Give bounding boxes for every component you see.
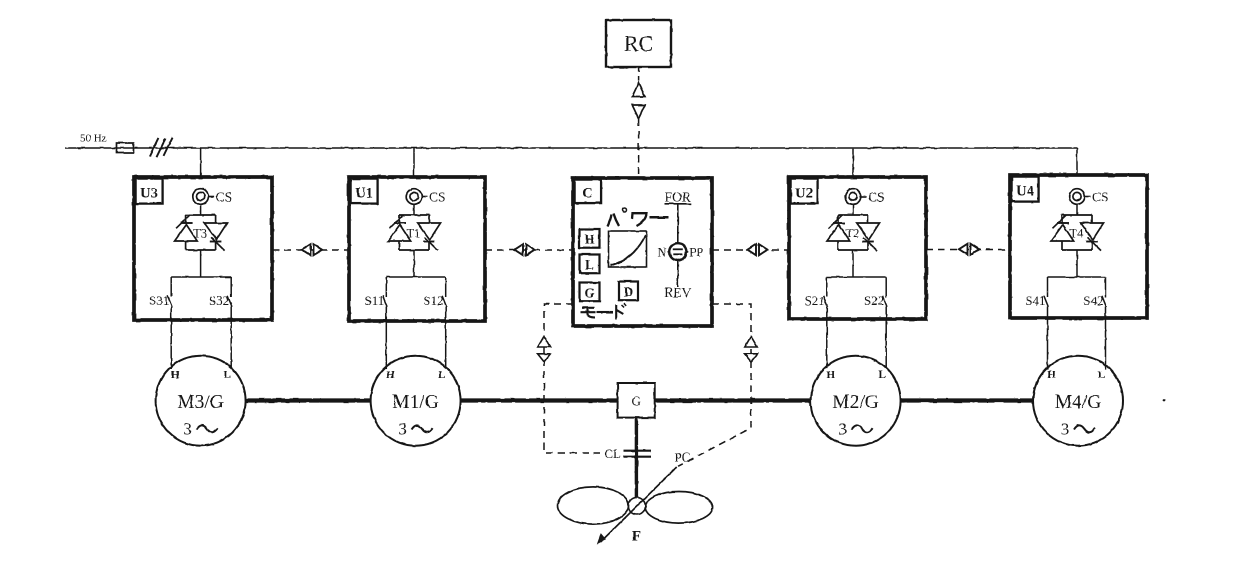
switch box top wire of U3: [171, 276, 231, 278]
label PP: [686, 245, 703, 259]
svg-text:S11: S11: [365, 293, 385, 308]
mode button D: [619, 282, 638, 301]
inverter unit U2 box: [789, 177, 926, 319]
svg-text:U3: U3: [140, 185, 158, 201]
thyristor pair T2: [827, 215, 880, 251]
svg-text:M3/G: M3/G: [177, 392, 224, 413]
label 3-phase of M1/G: [398, 420, 432, 439]
wire T3 to switch box: [200, 250, 202, 277]
svg-text:3: 3: [1061, 420, 1070, 439]
switch box top wire of U1: [386, 276, 445, 278]
current sensor CS of U1: [406, 189, 427, 205]
inverter unit U1 box: [349, 177, 485, 321]
label C: [575, 180, 602, 204]
svg-text:T4: T4: [1070, 227, 1085, 241]
svg-text:H: H: [386, 369, 395, 381]
three-phase slashes: [149, 137, 172, 157]
arrow down on clutch line: [538, 354, 551, 362]
wire power feed to U2: [852, 148, 854, 177]
label 3-phase of M2/G: [838, 420, 872, 439]
wire power feed to U1: [413, 148, 415, 177]
wire PP to REV: [677, 260, 679, 287]
pitch control rod PC: [598, 467, 677, 543]
switch S21: [823, 277, 827, 368]
svg-text:L: L: [438, 369, 445, 381]
double arrow on U2-U4: [959, 244, 979, 255]
wire CS to thyristor T1: [413, 204, 415, 216]
svg-text:T3: T3: [193, 227, 207, 241]
svg-text:S32: S32: [209, 293, 229, 308]
propeller blade right: [645, 492, 712, 524]
propeller blade left: [558, 487, 629, 524]
motor generator M4/G: [1033, 356, 1123, 446]
label 3-phase of M3/G: [183, 420, 217, 439]
wire CS to thyristor T3: [200, 204, 202, 216]
wire FOR to PP: [677, 204, 679, 244]
switch S32: [228, 277, 232, 369]
label katakana mode (モード): [581, 304, 627, 320]
svg-text:3: 3: [183, 420, 192, 439]
wire CS to thyristor T2: [852, 204, 854, 216]
label U3: [136, 179, 163, 204]
inverter unit U3 box: [134, 177, 272, 320]
switch S11: [383, 277, 387, 369]
svg-text:H: H: [171, 369, 180, 381]
control line C to clutch: [544, 304, 600, 453]
arrow down on RC link: [632, 105, 645, 119]
svg-text:3: 3: [398, 420, 407, 439]
svg-text:U1: U1: [355, 185, 373, 201]
thyristor pair T3: [175, 215, 228, 251]
motor generator M2/G: [811, 356, 901, 446]
svg-text:L: L: [585, 257, 594, 272]
power curve graph: [609, 231, 647, 267]
wire RC to C dashed link: [638, 67, 640, 178]
fuse on power bus: [117, 143, 134, 153]
shaft gearbox to M2: [655, 398, 811, 402]
svg-text:PC: PC: [675, 450, 691, 465]
svg-text:L: L: [879, 369, 886, 381]
motor generator M1/G: [371, 356, 461, 446]
arrow up on clutch line: [538, 336, 550, 347]
svg-text:CL: CL: [604, 446, 621, 461]
svg-text:S41: S41: [1025, 293, 1045, 308]
label katakana power (パワー): [608, 208, 669, 227]
potentiometer PP dial: [669, 243, 686, 260]
mode button G: [580, 283, 600, 302]
wire T4 to switch box: [1076, 250, 1078, 277]
label 3-phase of M4/G: [1061, 420, 1095, 439]
svg-text:U2: U2: [795, 185, 813, 201]
svg-text:T2: T2: [846, 227, 860, 241]
svg-text:G: G: [584, 285, 594, 300]
svg-text:S31: S31: [149, 293, 169, 308]
svg-text:PP: PP: [689, 245, 703, 259]
double arrow on C-U2: [748, 244, 768, 255]
mode button L: [580, 255, 600, 274]
svg-text:M1/G: M1/G: [392, 392, 439, 413]
svg-text:CS: CS: [429, 189, 446, 204]
svg-text:L: L: [1098, 369, 1105, 381]
inverter unit U4 box: [1010, 175, 1147, 318]
double arrow on U1-C: [515, 244, 535, 255]
comm link U1-C: [485, 249, 573, 251]
stray mark: [1163, 399, 1166, 402]
svg-text:CS: CS: [1092, 189, 1109, 204]
shaft M3 to M1: [246, 398, 371, 402]
label U4: [1012, 177, 1039, 202]
svg-text:CS: CS: [216, 189, 233, 204]
svg-text:N: N: [657, 245, 666, 259]
shaft M2 to M4: [901, 398, 1033, 402]
double arrow on U3-U1: [302, 244, 322, 255]
svg-text:H: H: [827, 369, 836, 381]
thyristor pair T1: [388, 215, 441, 251]
label FOR: [665, 190, 692, 205]
svg-text:CS: CS: [868, 189, 885, 204]
svg-text:S22: S22: [864, 293, 884, 308]
svg-text:REV: REV: [664, 285, 691, 300]
propeller shaft: [635, 418, 638, 498]
arrow up on RC link: [632, 83, 645, 97]
switch S12: [442, 277, 446, 369]
thyristor pair T4: [1051, 215, 1104, 251]
current sensor CS of U2: [845, 189, 866, 205]
svg-text:L: L: [224, 369, 231, 381]
comm link C-U2: [712, 249, 789, 251]
svg-text:D: D: [624, 284, 633, 299]
current sensor CS of U3: [193, 189, 214, 205]
clutch CL: [624, 451, 652, 457]
svg-text:3: 3: [838, 420, 847, 439]
switch box top wire of U2: [827, 276, 886, 278]
wire T1 to switch box: [413, 250, 415, 277]
propeller hub F: [628, 498, 645, 515]
svg-text:C: C: [582, 186, 592, 202]
mode button H: [580, 229, 600, 248]
label U1: [351, 179, 378, 204]
comm link U2-U4: [926, 249, 1010, 251]
svg-text:H: H: [584, 232, 594, 247]
svg-text:S12: S12: [423, 293, 443, 308]
svg-text:FOR: FOR: [665, 190, 691, 205]
svg-text:U4: U4: [1016, 183, 1034, 199]
remote control RC box: [606, 20, 671, 67]
arrow up on pitch line: [745, 336, 757, 347]
svg-text:T1: T1: [407, 227, 421, 241]
svg-text:M4/G: M4/G: [1055, 392, 1102, 413]
switch S41: [1044, 277, 1048, 370]
gearbox G: [618, 383, 655, 418]
arrow down on pitch line: [745, 354, 758, 362]
label U2: [791, 179, 818, 204]
switch S22: [883, 277, 887, 368]
controller C box: [573, 178, 712, 326]
svg-text:F: F: [632, 529, 641, 545]
svg-text:RC: RC: [624, 31, 653, 56]
switch S42: [1102, 277, 1106, 370]
svg-text:G: G: [632, 393, 641, 408]
wire CS to thyristor T4: [1076, 204, 1078, 216]
control line C to pitch control: [678, 304, 751, 466]
svg-text:M2/G: M2/G: [832, 392, 879, 413]
switch box top wire of U4: [1048, 276, 1106, 278]
svg-text:H: H: [1047, 369, 1056, 381]
label N: [657, 245, 669, 259]
svg-text:50 Hz: 50 Hz: [80, 133, 107, 145]
current sensor CS of U4: [1069, 189, 1090, 205]
wire 50Hz power bus: [65, 148, 1077, 175]
svg-text:S42: S42: [1083, 293, 1103, 308]
wire power feed to U3: [200, 148, 202, 177]
motor generator M3/G: [156, 356, 246, 446]
shaft M1 to gearbox: [461, 398, 618, 402]
wire T2 to switch box: [852, 250, 854, 277]
svg-text:S21: S21: [805, 293, 825, 308]
comm link U3-U1: [272, 249, 349, 251]
switch S31: [168, 277, 172, 369]
